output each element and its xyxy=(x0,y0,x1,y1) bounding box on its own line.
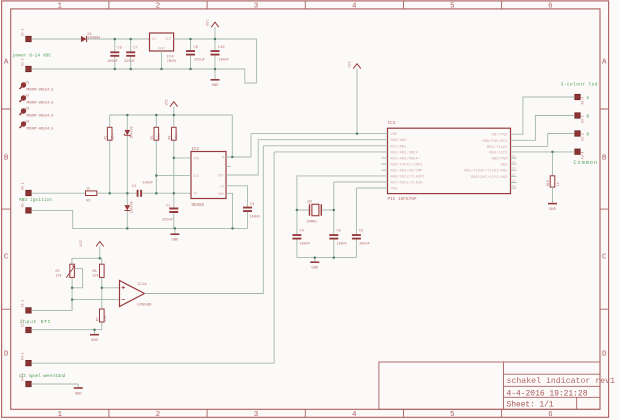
wire D1 to IC4 IN xyxy=(87,38,150,40)
svg-text:C2: C2 xyxy=(132,185,136,189)
svg-text:R10: R10 xyxy=(547,180,551,186)
svg-text:H1: H1 xyxy=(26,80,30,84)
wire PIC to led G xyxy=(517,97,575,134)
svg-text:GND: GND xyxy=(75,392,83,396)
svg-text:OUT: OUT xyxy=(165,38,172,42)
capacitor C4 xyxy=(292,210,310,258)
svg-text:IC4: IC4 xyxy=(167,56,175,60)
wire VDD net into PIC xyxy=(251,133,382,135)
wire ignition pin2 to gnd rail xyxy=(31,210,247,228)
wire spoel pin1 long riser to PIC xyxy=(31,152,274,363)
svg-text:D: D xyxy=(602,351,607,359)
svg-text:R: R xyxy=(222,156,224,160)
svg-text:H3: H3 xyxy=(26,106,30,110)
wire riser nets into PIC xyxy=(258,139,381,141)
svg-text:MOUNT-HOLE4.5: MOUNT-HOLE4.5 xyxy=(27,102,55,106)
frame row labels left xyxy=(4,59,9,359)
svg-text:IC3: IC3 xyxy=(388,121,396,126)
connector X4 spoel pin 2 xyxy=(21,373,32,386)
diode D3 xyxy=(124,193,134,228)
wire IC2 DIS pin from R3 xyxy=(156,175,191,177)
diode D1 xyxy=(81,33,100,42)
svg-text:100nF: 100nF xyxy=(359,243,370,247)
ground symbol GND (power section) xyxy=(211,69,220,88)
wire IC2 THR pin from R4 node xyxy=(174,157,191,159)
op-amp IC1A LM358N xyxy=(120,281,153,308)
wire IC4 OUT rail xyxy=(174,38,257,40)
capacitor C5 xyxy=(352,188,370,258)
capacitor C8 xyxy=(186,39,205,69)
frame column labels top xyxy=(57,3,553,11)
svg-text:GND: GND xyxy=(212,84,220,88)
svg-text:RB4/CCP1: RB4/CCP1 xyxy=(489,150,508,155)
svg-text:RA1/AN1: RA1/AN1 xyxy=(391,144,408,149)
svg-text:D: D xyxy=(4,351,9,359)
svg-text:VCC: VCC xyxy=(349,61,353,67)
ground symbol GND (555 section) xyxy=(170,228,179,242)
svg-text:RB0/INT/CCP2/AN3: RB0/INT/CCP2/AN3 xyxy=(471,175,508,180)
svg-text:H2: H2 xyxy=(26,93,30,97)
svg-text:10k: 10k xyxy=(111,133,116,139)
svg-text:R2: R2 xyxy=(87,200,91,204)
junction dot led common xyxy=(551,151,554,154)
ground symbol GND (led common) xyxy=(548,204,557,212)
svg-text:B: B xyxy=(4,155,9,163)
wire NTC pin1 up to -in node xyxy=(31,300,72,311)
connector X3 led pin 1 xyxy=(575,94,585,104)
svg-text:11: 11 xyxy=(512,155,516,158)
svg-text:R4: R4 xyxy=(168,135,172,139)
resistor R1 xyxy=(104,115,115,193)
svg-text:10k: 10k xyxy=(93,273,99,278)
wire C5 to PIC VSS xyxy=(356,187,381,189)
svg-text:4: 4 xyxy=(352,3,357,11)
svg-text:1N4004: 1N4004 xyxy=(88,36,101,40)
wire trimmer node to op-amp -in xyxy=(72,299,119,301)
zener diode D2 xyxy=(124,115,134,193)
svg-text:IC2: IC2 xyxy=(192,148,200,152)
wire gnd rail power section xyxy=(31,68,245,70)
svg-text:100nF: 100nF xyxy=(250,215,261,219)
ground symbol GND (op-amp section) xyxy=(90,330,99,343)
timer IC2 NE555 box xyxy=(191,148,226,208)
wire stub right of VCC rail turning down xyxy=(256,39,258,83)
svg-text:220uF: 220uF xyxy=(194,59,205,63)
svg-text:A: A xyxy=(4,59,9,67)
svg-text:10k: 10k xyxy=(56,273,62,278)
IC2 unused pin stub xyxy=(226,166,231,168)
wire VCC rail 555 section xyxy=(110,114,233,116)
frame row ticks left xyxy=(2,109,11,309)
title block outline xyxy=(379,362,600,409)
svg-text:A: A xyxy=(602,59,607,67)
svg-text:B: B xyxy=(587,115,590,120)
svg-text:X3-2: X3-2 xyxy=(581,115,585,123)
svg-text:1: 1 xyxy=(57,411,62,419)
svg-text:RA0/AN0: RA0/AN0 xyxy=(391,138,408,143)
svg-text:47k: 47k xyxy=(157,133,162,139)
svg-text:4: 4 xyxy=(352,411,357,419)
svg-text:4-4-2016 19:21:28: 4-4-2016 19:21:28 xyxy=(507,389,588,398)
ground symbol GND (crystal section) xyxy=(310,258,319,271)
svg-text:RB7/PGD: RB7/PGD xyxy=(492,133,509,138)
supply symbol VCC (op-amp section) xyxy=(80,240,104,258)
svg-text:7805: 7805 xyxy=(167,60,177,64)
resistor R2 (horizontal) xyxy=(86,187,97,204)
svg-text:RB1/T1OSO/T1CKI/AN2: RB1/T1OSO/T1CKI/AN2 xyxy=(464,169,508,174)
trimmer resistor R5 xyxy=(56,258,75,310)
junction dots crystal section xyxy=(296,209,335,259)
svg-text:14: 14 xyxy=(512,173,516,176)
svg-text:RA6/OSC2/CLKOUT: RA6/OSC2/CLKOUT xyxy=(391,174,426,179)
capacitor C2 (shunt at TR node) xyxy=(162,193,178,228)
svg-text:TR: TR xyxy=(193,193,197,197)
connector ignition pin 2 xyxy=(21,200,32,213)
svg-text:OUT: OUT xyxy=(218,175,224,179)
supply symbol VCC (power section) xyxy=(207,20,219,39)
svg-text:power 8-14 VDC: power 8-14 VDC xyxy=(13,53,51,59)
wire X2-1 to D1 xyxy=(31,38,81,40)
wire NTC pin2 to gnd node xyxy=(31,329,94,331)
svg-text:X5-1: X5-1 xyxy=(21,182,25,190)
svg-text:1k: 1k xyxy=(556,182,561,186)
junction dots power section xyxy=(114,38,217,71)
PIC left pin stubs xyxy=(382,134,388,188)
svg-text:C8: C8 xyxy=(194,46,198,50)
resistor R10 xyxy=(547,176,561,203)
svg-text:2: 2 xyxy=(156,3,161,11)
wire PIC to led B xyxy=(517,116,575,141)
wire R2 to series cap C1 xyxy=(97,192,137,194)
svg-text:X2-1: X2-1 xyxy=(21,28,25,36)
svg-text:1k: 1k xyxy=(86,187,90,192)
connector X1 NTC pin 2 xyxy=(21,319,32,332)
svg-text:100nF: 100nF xyxy=(337,243,348,247)
capacitor C7 xyxy=(124,39,138,69)
ground symbol GND (spoel) xyxy=(74,384,83,396)
svg-text:47k: 47k xyxy=(175,133,180,139)
resistor R3 xyxy=(151,115,162,193)
svg-text:RB3/PGM: RB3/PGM xyxy=(492,157,509,162)
voltage regulator IC4 7805 box xyxy=(150,33,177,64)
capacitor C9 xyxy=(329,210,347,258)
wire PIC to led common xyxy=(517,151,575,153)
wire R6 to op-amp +in xyxy=(102,287,120,289)
svg-text:VSS: VSS xyxy=(391,188,399,192)
svg-text:X3-3: X3-3 xyxy=(581,133,585,141)
svg-text:MOUNT-HOLE4.5: MOUNT-HOLE4.5 xyxy=(27,128,55,132)
crystal Q2 xyxy=(297,201,334,225)
svg-text:C10: C10 xyxy=(218,46,224,50)
resistor R7 xyxy=(95,288,108,330)
svg-text:2: 2 xyxy=(156,411,161,419)
svg-text:100nF: 100nF xyxy=(300,243,311,247)
wire crystal right leg OSC1 riser xyxy=(334,182,382,210)
wire common drop to R10 xyxy=(552,152,554,176)
svg-text:20MHz: 20MHz xyxy=(307,221,318,225)
svg-text:16: 16 xyxy=(512,185,516,188)
wire C1 to IC2 TR pin xyxy=(142,192,191,194)
wire stub gnd rail turning down and right xyxy=(245,69,257,83)
svg-text:RA2/AN2/VREF-: RA2/AN2/VREF- xyxy=(391,150,421,155)
svg-text:DIS: DIS xyxy=(193,175,199,179)
connector X2 pin 2 (power gnd) xyxy=(21,58,32,71)
svg-text:input NTC: input NTC xyxy=(20,319,51,325)
wire IC4 GND pin down to gnd rail xyxy=(161,51,163,69)
svg-text:100nF: 100nF xyxy=(107,60,118,64)
wire ignition pin1 to R2 xyxy=(31,192,85,194)
svg-text:C9: C9 xyxy=(337,230,341,234)
svg-text:VDD: VDD xyxy=(391,133,399,137)
svg-text:Q2: Q2 xyxy=(308,201,313,205)
svg-text:THR: THR xyxy=(193,157,199,161)
connector ignition pin 1 xyxy=(21,182,32,195)
svg-text:GND: GND xyxy=(171,239,179,243)
svg-text:schakel indicator rev1: schakel indicator rev1 xyxy=(507,376,616,386)
connector X1 NTC pin 1 xyxy=(21,300,32,313)
svg-text:NE555: NE555 xyxy=(192,204,205,208)
svg-text:R3: R3 xyxy=(151,135,155,139)
svg-text:X2-2: X2-2 xyxy=(21,58,25,66)
PIC right pin stubs xyxy=(511,134,517,188)
mount hole H4 xyxy=(20,119,55,131)
svg-text:GND: GND xyxy=(549,208,557,212)
svg-text:IC1A: IC1A xyxy=(137,283,147,287)
svg-text:15: 15 xyxy=(512,179,516,182)
svg-text:GND: GND xyxy=(91,339,99,343)
connector X3 led pin 4 xyxy=(575,149,585,159)
svg-text:IN: IN xyxy=(151,38,155,42)
svg-text:12: 12 xyxy=(512,161,516,164)
svg-text:R6: R6 xyxy=(93,270,97,274)
wire op-amp output riser to PIC xyxy=(145,146,264,294)
svg-text:10k: 10k xyxy=(103,315,108,321)
capacitor C1 (series) xyxy=(132,182,153,197)
svg-text:RA3/AN3/VREF+: RA3/AN3/VREF+ xyxy=(391,156,421,161)
wire spoel pin2 to gnd xyxy=(31,383,78,385)
svg-text:R: R xyxy=(587,133,590,138)
svg-text:RB5/T1ACK: RB5/T1ACK xyxy=(487,145,508,150)
supply symbol VCC (PIC) xyxy=(349,61,361,134)
svg-text:C6: C6 xyxy=(118,47,122,51)
mount hole H3 xyxy=(20,106,55,118)
resistor R4 xyxy=(168,115,179,193)
svg-text:RA5/AN4/SS/CMP: RA5/AN4/SS/CMP xyxy=(391,169,424,174)
svg-text:R7: R7 xyxy=(96,317,100,321)
connector X3 led pin 2 xyxy=(575,113,585,123)
PIC left pin names xyxy=(391,133,426,191)
svg-text:X3-4: X3-4 xyxy=(581,151,585,159)
svg-text:C1: C1 xyxy=(166,204,170,208)
svg-text:X1-1: X1-1 xyxy=(21,300,25,308)
wire IC2 OUT to vertical riser xyxy=(226,140,258,175)
svg-text:C3: C3 xyxy=(250,203,254,207)
svg-text:RA4/T0CKI/CMP2: RA4/T0CKI/CMP2 xyxy=(391,163,424,168)
svg-text:1: 1 xyxy=(57,3,62,11)
PIC pin numbers right xyxy=(512,155,516,188)
frame column ticks bottom xyxy=(109,409,502,417)
svg-text:220uF: 220uF xyxy=(124,60,135,64)
svg-text:3: 3 xyxy=(254,3,259,11)
svg-text:LM358N: LM358N xyxy=(137,304,152,308)
svg-text:1N4148: 1N4148 xyxy=(130,126,134,138)
svg-text:MOUNT-HOLE4.5: MOUNT-HOLE4.5 xyxy=(27,115,55,119)
svg-text:MOUNT-HOLE4.5: MOUNT-HOLE4.5 xyxy=(27,89,55,93)
junction dots op-amp section xyxy=(71,257,103,331)
svg-text:uit spoel weerstand: uit spoel weerstand xyxy=(19,374,66,379)
wire IC2 GND to gnd rail xyxy=(226,193,233,228)
svg-text:6: 6 xyxy=(548,411,553,419)
svg-text:C4: C4 xyxy=(300,230,304,234)
svg-text:C5: C5 xyxy=(359,230,363,234)
wire IC2 CV to C3 xyxy=(226,186,248,207)
svg-text:R5: R5 xyxy=(56,270,60,274)
svg-text:Sheet: 1/1: Sheet: 1/1 xyxy=(507,401,554,410)
svg-text:3: 3 xyxy=(254,411,259,419)
svg-text:RB6/PGC/RC2: RB6/PGC/RC2 xyxy=(482,139,508,144)
svg-text:C7: C7 xyxy=(134,47,138,51)
svg-text:VCC: VCC xyxy=(207,20,211,26)
frame column ticks top xyxy=(109,1,502,9)
frame row labels right xyxy=(602,59,607,359)
svg-text:GND: GND xyxy=(158,47,164,51)
svg-text:RA7/OSC1/CLKIN: RA7/OSC1/CLKIN xyxy=(391,181,423,186)
svg-text:5: 5 xyxy=(450,411,455,419)
svg-text:R1: R1 xyxy=(104,135,108,139)
junction dots 555 section xyxy=(108,114,233,230)
svg-text:B: B xyxy=(602,155,607,163)
connector X3 led pin 3 xyxy=(575,131,585,141)
capacitor C6 xyxy=(107,39,122,69)
svg-text:PIC 16F876P: PIC 16F876P xyxy=(388,197,417,202)
PIC right pin names xyxy=(464,133,508,180)
supply symbol VCC (555 section) xyxy=(166,99,178,115)
svg-text:X4-1: X4-1 xyxy=(21,352,25,360)
svg-text:C: C xyxy=(602,254,607,262)
frame column labels bottom xyxy=(57,411,553,419)
svg-text:13: 13 xyxy=(512,167,516,170)
wire VCC rail op-amp section xyxy=(72,257,102,259)
capacitor C10 xyxy=(211,39,230,69)
wire PIC to led R xyxy=(517,134,575,147)
svg-text:100nF: 100nF xyxy=(143,182,154,186)
connector X4 spoel pin 1 xyxy=(21,352,32,365)
svg-text:6: 6 xyxy=(548,3,553,11)
connector X2 pin 1 (power +) xyxy=(21,28,32,41)
frame row ticks right xyxy=(600,109,609,309)
junction dot PIC VDD xyxy=(356,132,359,135)
svg-text:Common: Common xyxy=(574,160,598,166)
wire IC2 R pin extension to PIC VDD net xyxy=(232,134,251,157)
resistor R6 xyxy=(93,258,105,288)
wire crystal left leg OSC2 riser xyxy=(297,176,382,210)
svg-text:H4: H4 xyxy=(26,119,30,123)
svg-text:VCC: VCC xyxy=(80,240,84,246)
svg-text:GND: GND xyxy=(311,267,319,271)
capacitor C3 xyxy=(243,203,260,228)
svg-text:3-colour led: 3-colour led xyxy=(561,82,598,88)
mount hole H1 xyxy=(20,80,55,92)
microcontroller IC3 PIC16F876P box xyxy=(388,121,511,202)
svg-text:GND: GND xyxy=(218,193,224,197)
svg-text:RB2: RB2 xyxy=(501,164,509,168)
wire IC2 R pin to VCC rail drop xyxy=(226,115,232,157)
wire crystal gnd rail xyxy=(297,257,357,259)
svg-text:G: G xyxy=(587,96,590,101)
svg-text:1N4148: 1N4148 xyxy=(130,201,134,213)
wire trimmer wiper loop xyxy=(72,269,83,288)
svg-text:100nF: 100nF xyxy=(219,59,230,63)
svg-text:5: 5 xyxy=(450,3,455,11)
mount hole H2 xyxy=(20,93,55,105)
svg-text:C: C xyxy=(4,254,9,262)
svg-text:PM3 ignition: PM3 ignition xyxy=(19,198,52,203)
svg-text:VCC: VCC xyxy=(166,99,170,105)
svg-text:X3-1: X3-1 xyxy=(581,97,585,105)
svg-text:220nF: 220nF xyxy=(162,218,173,222)
